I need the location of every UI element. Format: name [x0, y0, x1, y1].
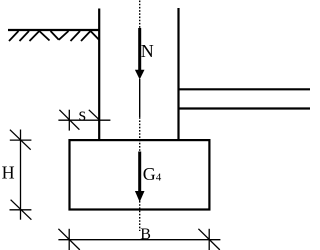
dimension H line: [20, 130, 22, 220]
dimension H bottom tick: [10, 209, 32, 211]
centerline dashed segment top: [139, 1, 141, 29]
dimension B extension tick left: [68, 229, 70, 250]
dimension s line: [58, 119, 110, 121]
force N arrow shaft: [138, 28, 141, 71]
force G4 arrowhead: [135, 191, 145, 202]
dimension H oblique tick top: [10, 130, 31, 150]
column left wall: [98, 9, 100, 142]
svg-text:H: H: [2, 162, 15, 182]
force N arrowhead: [135, 70, 145, 80]
dimension H oblique tick bottom: [11, 200, 32, 220]
ground hatch stroke 9: [91, 31, 100, 40]
ground hatch stroke 3: [30, 31, 40, 41]
ground hatch stroke 1: [9, 31, 19, 41]
ground hatch stroke 5: [51, 31, 59, 40]
centerline thin solid segment: [139, 79, 141, 117]
ground hatch stroke 6: [59, 31, 69, 40]
svg-text:N: N: [141, 41, 154, 61]
dimension B line: [58, 239, 220, 241]
ground hatch stroke 7: [71, 31, 81, 41]
svg-text:B: B: [140, 226, 151, 243]
dimension B extension tick right: [208, 229, 210, 250]
ground line: [8, 29, 100, 31]
dimension H top tick: [10, 139, 32, 141]
ground hatch stroke 8: [81, 31, 91, 41]
foundation block: [70, 140, 210, 209]
dimension B oblique tick right: [198, 229, 219, 250]
dimension s oblique tick left: [59, 110, 79, 130]
upper floor beam line: [179, 88, 311, 90]
ground hatch stroke 4: [39, 31, 49, 41]
force G4 arrow shaft: [138, 152, 141, 192]
svg-text:s: s: [79, 104, 86, 125]
dimension s oblique tick right: [89, 110, 100, 120]
dimension B oblique tick left: [58, 229, 79, 250]
ground hatch stroke 2: [20, 31, 30, 41]
column right wall: [177, 8, 179, 141]
dimension s extension tick: [68, 110, 70, 131]
centerline dashed segment middle: [139, 117, 141, 151]
centerline dashed segment bottom: [139, 201, 141, 231]
lower floor beam line: [179, 107, 311, 109]
